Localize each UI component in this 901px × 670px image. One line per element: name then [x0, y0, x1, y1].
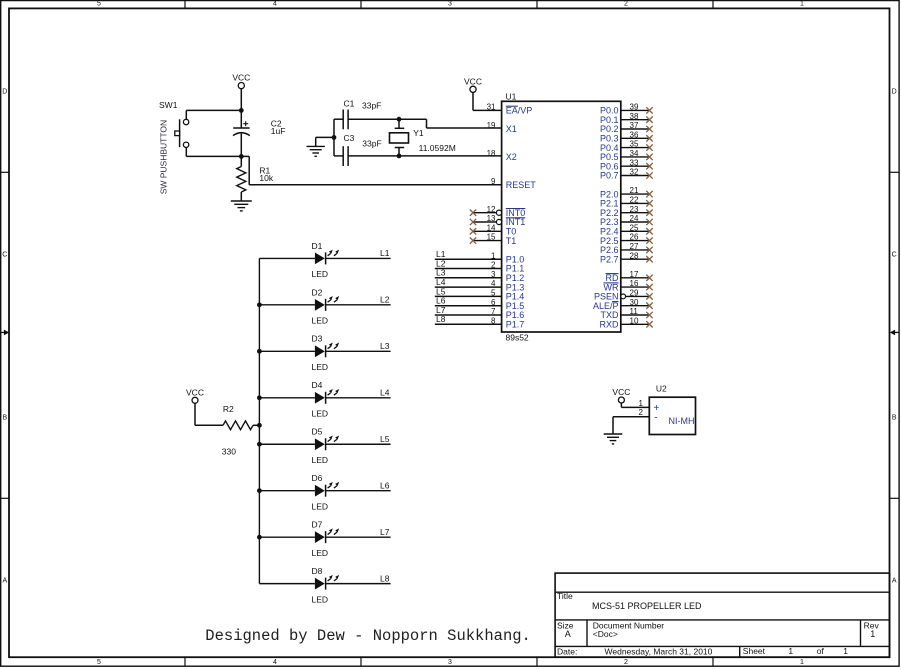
svg-text:33pF: 33pF [362, 101, 381, 111]
svg-text:L1: L1 [380, 248, 390, 258]
svg-text:L8: L8 [380, 573, 390, 583]
svg-text:2: 2 [624, 659, 628, 666]
svg-text:Wednesday, March 31, 2010: Wednesday, March 31, 2010 [605, 646, 713, 656]
svg-text:89s52: 89s52 [506, 333, 529, 343]
svg-text:P2.7: P2.7 [600, 254, 619, 264]
svg-text:Designed by Dew - Nopporn Sukk: Designed by Dew - Nopporn Sukkhang. [205, 627, 531, 645]
svg-text:B: B [892, 415, 897, 422]
svg-text:D6: D6 [312, 473, 323, 483]
svg-text:LED: LED [312, 594, 329, 604]
svg-text:Y1: Y1 [413, 128, 424, 138]
svg-text:LED: LED [312, 269, 329, 279]
svg-text:X1: X1 [506, 124, 517, 134]
svg-text:10k: 10k [259, 173, 273, 183]
svg-text:D8: D8 [312, 566, 323, 576]
svg-text:L7: L7 [380, 527, 390, 537]
svg-text:D: D [892, 89, 897, 96]
svg-text:LED: LED [312, 502, 329, 512]
svg-text:RXD: RXD [599, 320, 619, 330]
svg-text:LED: LED [312, 316, 329, 326]
svg-text:X2: X2 [506, 152, 517, 162]
svg-text:L3: L3 [380, 341, 390, 351]
svg-text:5: 5 [97, 659, 101, 666]
svg-text:-: - [654, 413, 657, 424]
svg-text:<Doc>: <Doc> [593, 629, 618, 639]
svg-text:VCC: VCC [464, 76, 482, 86]
svg-text:C1: C1 [344, 98, 355, 108]
svg-text:T1: T1 [506, 236, 517, 246]
svg-text:U2: U2 [656, 384, 667, 394]
svg-text:Date:: Date: [557, 646, 577, 656]
svg-text:D7: D7 [312, 520, 323, 530]
svg-text:L8: L8 [436, 314, 446, 324]
svg-text:11.0592M: 11.0592M [419, 143, 456, 153]
svg-text:D4: D4 [312, 380, 323, 390]
svg-text:SW1: SW1 [159, 100, 178, 110]
svg-text:C: C [2, 252, 7, 259]
svg-text:33pF: 33pF [362, 138, 381, 148]
svg-text:D2: D2 [312, 287, 323, 297]
svg-text:D1: D1 [312, 241, 323, 251]
svg-text:1: 1 [843, 646, 848, 656]
svg-text:of: of [817, 646, 825, 656]
svg-text:4: 4 [273, 1, 277, 8]
svg-text:1: 1 [788, 646, 793, 656]
svg-text:VCC: VCC [232, 73, 250, 83]
svg-text:EA/VP: EA/VP [506, 106, 533, 116]
svg-text:U1: U1 [506, 92, 517, 102]
svg-text:NI-MH: NI-MH [669, 416, 695, 426]
svg-text:Title: Title [557, 591, 573, 601]
svg-text:2: 2 [624, 1, 628, 8]
svg-text:D: D [2, 89, 7, 96]
svg-text:3: 3 [448, 659, 452, 666]
svg-text:VCC: VCC [186, 387, 204, 397]
svg-text:B: B [2, 415, 7, 422]
svg-text:L6: L6 [380, 481, 390, 491]
svg-text:LED: LED [312, 362, 329, 372]
svg-text:3: 3 [448, 1, 452, 8]
svg-text:1: 1 [639, 399, 644, 408]
svg-text:MCS-51 PROPELLER LED: MCS-51 PROPELLER LED [592, 601, 702, 611]
svg-text:A: A [565, 629, 571, 639]
svg-text:4: 4 [273, 659, 277, 666]
svg-text:330: 330 [222, 446, 236, 456]
svg-text:1: 1 [870, 629, 875, 639]
svg-text:P1.7: P1.7 [506, 320, 525, 330]
svg-text:L2: L2 [380, 295, 390, 305]
svg-text:D5: D5 [312, 427, 323, 437]
svg-text:2: 2 [639, 408, 644, 417]
svg-text:LED: LED [312, 455, 329, 465]
svg-text:VCC: VCC [612, 387, 630, 397]
svg-text:1: 1 [800, 659, 804, 666]
svg-text:RESET: RESET [506, 180, 537, 190]
svg-text:1: 1 [800, 1, 804, 8]
svg-text:5: 5 [97, 1, 101, 8]
svg-text:C: C [892, 252, 897, 259]
svg-text:R2: R2 [223, 404, 234, 414]
svg-text:P0.7: P0.7 [600, 171, 619, 181]
svg-text:L4: L4 [380, 388, 390, 398]
svg-text:SW PUSHBUTTON: SW PUSHBUTTON [158, 120, 168, 194]
svg-text:L5: L5 [380, 434, 390, 444]
svg-text:A: A [2, 578, 7, 585]
svg-text:D3: D3 [312, 334, 323, 344]
svg-text:LED: LED [312, 548, 329, 558]
svg-text:1uF: 1uF [271, 126, 286, 136]
svg-text:Sheet: Sheet [743, 646, 766, 656]
svg-text:C3: C3 [344, 133, 355, 143]
svg-text:LED: LED [312, 409, 329, 419]
svg-text:A: A [892, 578, 897, 585]
